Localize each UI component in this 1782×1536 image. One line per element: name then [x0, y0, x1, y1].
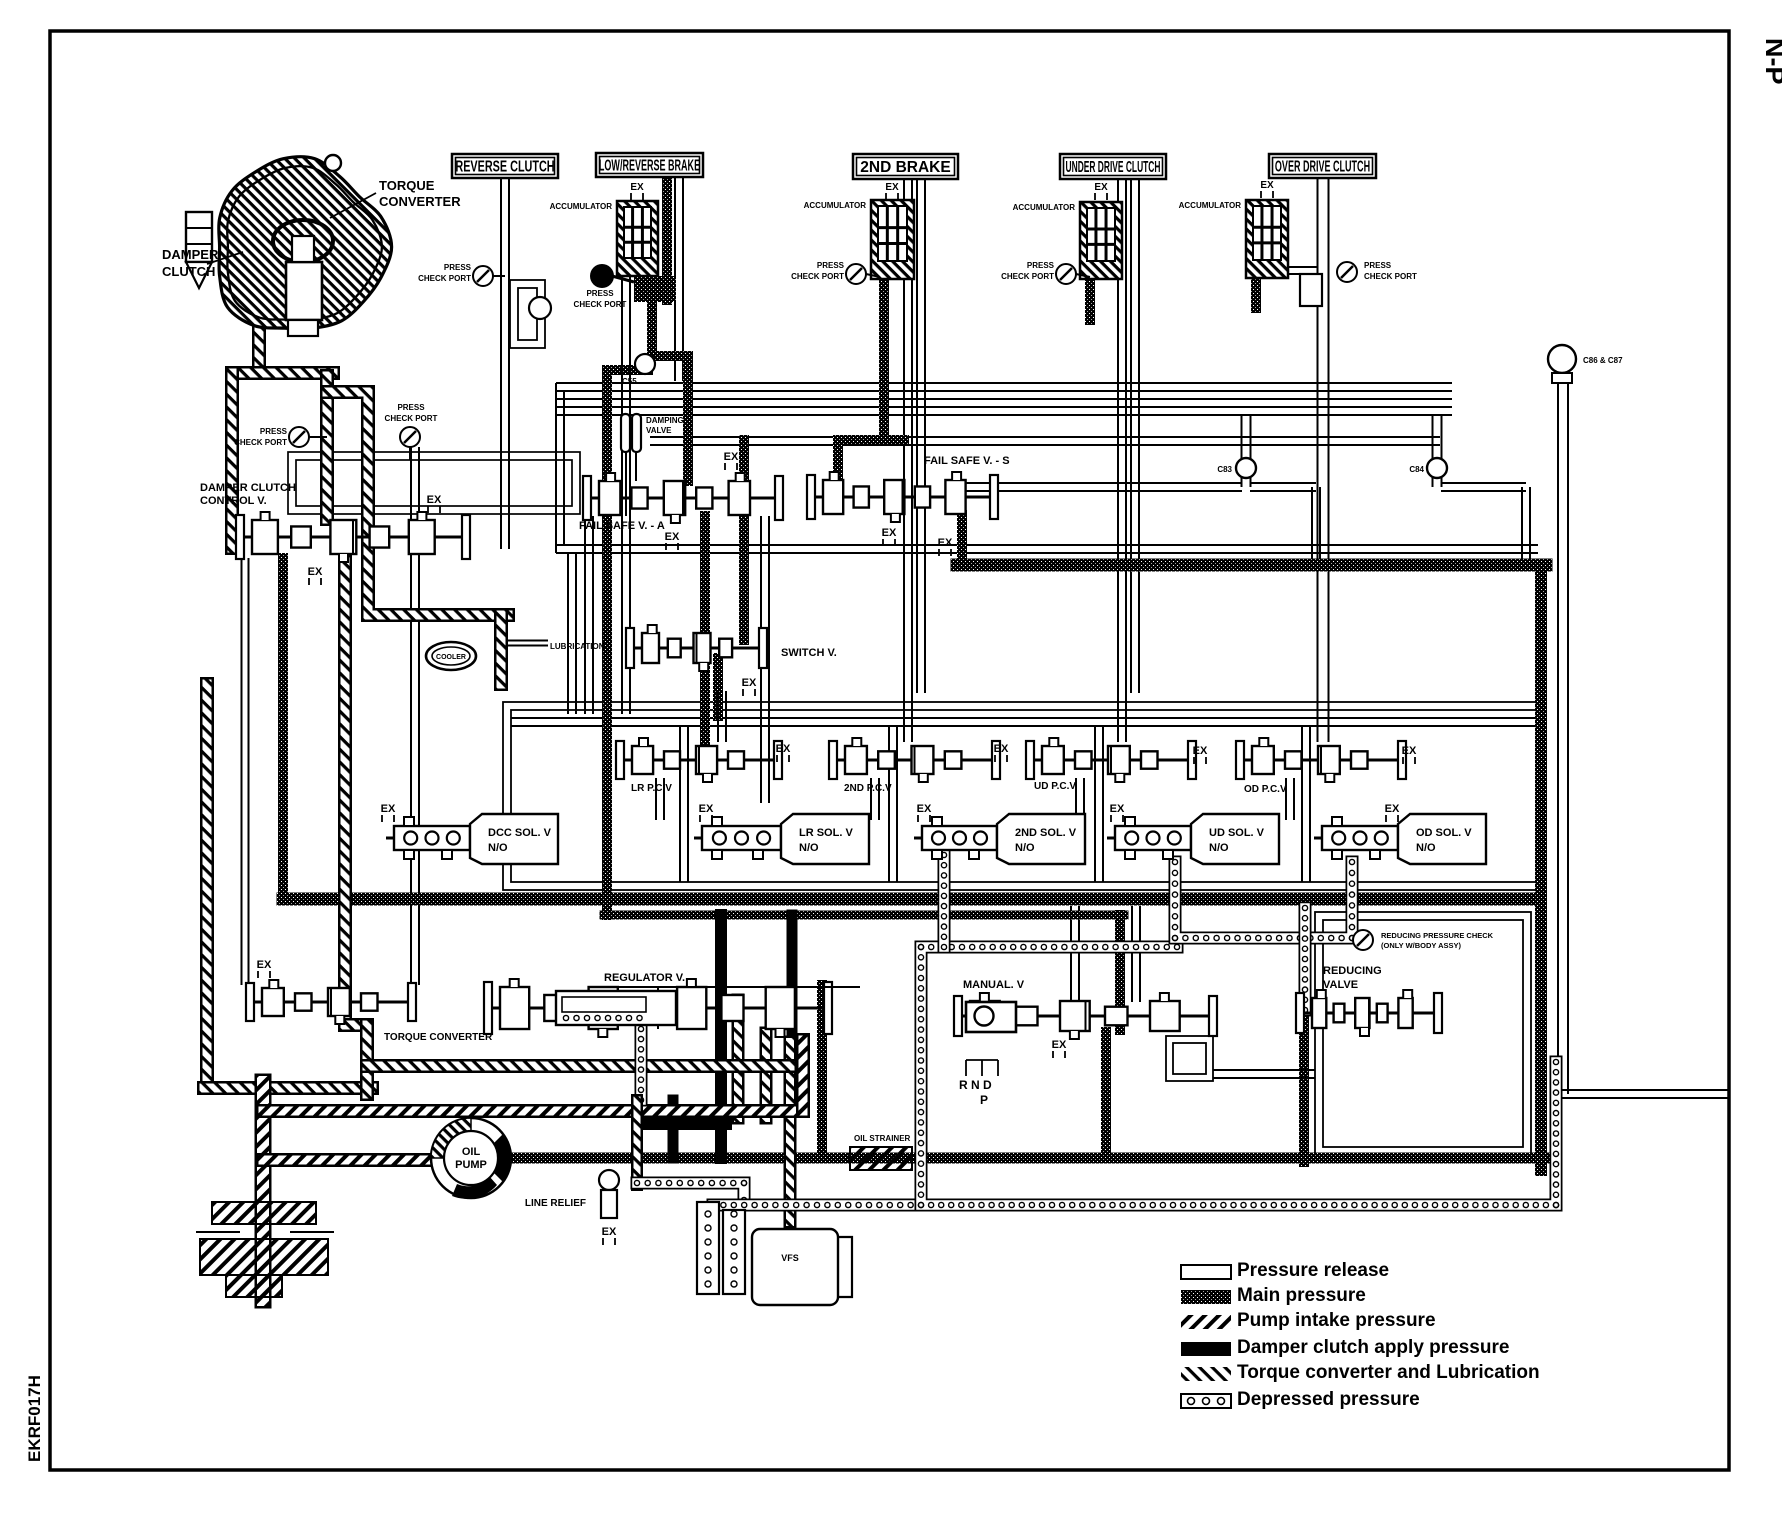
svg-text:PUMP: PUMP — [455, 1159, 487, 1171]
svg-text:ACCUMULATOR: ACCUMULATOR — [550, 202, 613, 211]
svg-text:TORQUE: TORQUE — [379, 178, 435, 193]
svg-text:CHECK PORT: CHECK PORT — [418, 274, 471, 283]
svg-text:PRESS: PRESS — [586, 289, 614, 298]
svg-text:DCC SOL. V: DCC SOL. V — [488, 827, 552, 839]
svg-text:N/O: N/O — [799, 842, 819, 854]
svg-text:LOW/REVERSE BRAKE: LOW/REVERSE BRAKE — [599, 157, 700, 174]
svg-text:OVER DRIVE CLUTCH: OVER DRIVE CLUTCH — [1275, 158, 1370, 175]
svg-text:REDUCING PRESSURE CHECK: REDUCING PRESSURE CHECK — [1381, 931, 1494, 940]
svg-text:OD P.C.V: OD P.C.V — [1244, 784, 1287, 795]
svg-text:ACCUMULATOR: ACCUMULATOR — [804, 201, 867, 210]
svg-text:OIL: OIL — [462, 1146, 481, 1158]
svg-text:2ND SOL. V: 2ND SOL. V — [1015, 827, 1077, 839]
svg-text:EX: EX — [1260, 180, 1274, 191]
svg-text:EX: EX — [1052, 1039, 1067, 1051]
svg-text:REGULATOR V.: REGULATOR V. — [604, 972, 685, 984]
svg-text:LUBRICATION: LUBRICATION — [550, 642, 605, 651]
svg-text:EX: EX — [938, 537, 953, 549]
svg-text:VALVE: VALVE — [646, 426, 672, 435]
svg-text:FAIL SAFE V. - S: FAIL SAFE V. - S — [924, 455, 1010, 467]
svg-text:EX: EX — [742, 677, 757, 689]
svg-text:C84: C84 — [1409, 465, 1424, 474]
svg-text:C86 & C87: C86 & C87 — [1583, 356, 1623, 365]
svg-text:(ONLY W/BODY ASSY): (ONLY W/BODY ASSY) — [1381, 941, 1462, 950]
svg-text:EX: EX — [724, 451, 739, 463]
svg-text:ACCUMULATOR: ACCUMULATOR — [1179, 201, 1242, 210]
svg-text:EX: EX — [630, 182, 644, 193]
svg-text:PRESS: PRESS — [260, 427, 288, 436]
svg-text:N/O: N/O — [488, 842, 508, 854]
svg-text:OIL STRAINER: OIL STRAINER — [854, 1134, 911, 1143]
svg-text:DAMPER: DAMPER — [162, 247, 219, 262]
svg-text:ACCUMULATOR: ACCUMULATOR — [1013, 203, 1076, 212]
svg-text:Torque converter and Lubricati: Torque converter and Lubrication — [1237, 1362, 1540, 1383]
svg-text:EX: EX — [882, 527, 897, 539]
svg-text:CHECK PORT: CHECK PORT — [385, 414, 438, 423]
svg-text:C83: C83 — [1217, 465, 1232, 474]
svg-text:R N D: R N D — [959, 1078, 992, 1092]
svg-text:2ND BRAKE: 2ND BRAKE — [860, 159, 950, 176]
svg-text:CHECK PORT: CHECK PORT — [791, 272, 844, 281]
svg-text:UD P.C.V: UD P.C.V — [1034, 781, 1076, 792]
svg-text:MANUAL. V: MANUAL. V — [963, 979, 1025, 991]
svg-text:UD SOL. V: UD SOL. V — [1209, 827, 1265, 839]
svg-text:2ND P.C.V: 2ND P.C.V — [844, 783, 892, 794]
svg-text:DAMPER CLUTCH: DAMPER CLUTCH — [200, 482, 296, 494]
svg-text:Damper clutch apply pressure: Damper clutch apply pressure — [1237, 1337, 1509, 1358]
svg-text:EX: EX — [1110, 803, 1125, 815]
svg-text:EX: EX — [699, 803, 714, 815]
svg-text:EX: EX — [776, 743, 791, 755]
svg-text:EKRF017H: EKRF017H — [25, 1375, 44, 1462]
svg-text:PRESS: PRESS — [817, 261, 845, 270]
svg-text:PRESS: PRESS — [1364, 261, 1392, 270]
svg-text:C55: C55 — [622, 377, 637, 386]
svg-text:CHECK PORT: CHECK PORT — [574, 300, 627, 309]
svg-text:EX: EX — [1402, 745, 1417, 757]
svg-text:FAIL SAFE V. - A: FAIL SAFE V. - A — [579, 520, 665, 532]
svg-text:Pump intake pressure: Pump intake pressure — [1237, 1310, 1436, 1331]
svg-text:CLUTCH: CLUTCH — [162, 264, 215, 279]
svg-text:LR P.C.V: LR P.C.V — [631, 783, 672, 794]
svg-text:Pressure release: Pressure release — [1237, 1260, 1389, 1281]
svg-text:VFS: VFS — [781, 1253, 799, 1263]
svg-text:LR SOL. V: LR SOL. V — [799, 827, 853, 839]
svg-text:LINE RELIEF: LINE RELIEF — [525, 1198, 586, 1209]
svg-text:COOLER: COOLER — [436, 654, 466, 661]
svg-text:EX: EX — [1193, 745, 1208, 757]
svg-text:Main pressure: Main pressure — [1237, 1285, 1366, 1306]
svg-text:DAMPING: DAMPING — [646, 416, 684, 425]
svg-text:EX: EX — [257, 959, 272, 971]
svg-text:TORQUE CONVERTER: TORQUE CONVERTER — [384, 1032, 493, 1043]
svg-text:SWITCH V.: SWITCH V. — [781, 647, 837, 659]
svg-text:EX: EX — [1094, 182, 1108, 193]
svg-text:REVERSE CLUTCH: REVERSE CLUTCH — [455, 158, 554, 175]
svg-text:CHECK PORT: CHECK PORT — [1364, 272, 1417, 281]
svg-text:EX: EX — [427, 494, 442, 506]
svg-text:CONVERTER: CONVERTER — [379, 194, 461, 209]
svg-text:P: P — [980, 1093, 988, 1107]
svg-text:N-P: N-P — [1760, 38, 1782, 85]
svg-text:N/O: N/O — [1209, 842, 1229, 854]
svg-text:EX: EX — [602, 1226, 617, 1238]
svg-text:OD SOL. V: OD SOL. V — [1416, 827, 1472, 839]
svg-text:EX: EX — [308, 566, 323, 578]
svg-text:UNDER DRIVE CLUTCH: UNDER DRIVE CLUTCH — [1066, 158, 1161, 175]
svg-text:CHECK PORT: CHECK PORT — [1001, 272, 1054, 281]
svg-text:PRESS: PRESS — [397, 403, 425, 412]
svg-text:EX: EX — [665, 531, 680, 543]
svg-text:VALVE: VALVE — [1323, 979, 1358, 991]
svg-text:EX: EX — [381, 803, 396, 815]
svg-text:PRESS: PRESS — [444, 263, 472, 272]
svg-text:CONTROL V.: CONTROL V. — [200, 495, 267, 507]
svg-text:CHECK PORT: CHECK PORT — [234, 438, 287, 447]
svg-text:N/O: N/O — [1015, 842, 1035, 854]
svg-text:REDUCING: REDUCING — [1323, 965, 1382, 977]
svg-text:EX: EX — [1385, 803, 1400, 815]
svg-text:EX: EX — [885, 182, 899, 193]
svg-text:Depressed pressure: Depressed pressure — [1237, 1389, 1420, 1410]
svg-text:N/O: N/O — [1416, 842, 1436, 854]
svg-text:PRESS: PRESS — [1027, 261, 1055, 270]
svg-text:EX: EX — [994, 743, 1009, 755]
svg-text:EX: EX — [917, 803, 932, 815]
